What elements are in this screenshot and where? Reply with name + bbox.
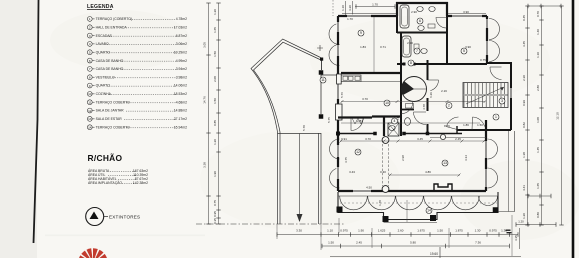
svg-text:3.70: 3.70 (362, 97, 368, 101)
svg-text:0.80: 0.80 (536, 212, 540, 218)
svg-text:1.45: 1.45 (536, 147, 540, 153)
svg-text:2.30: 2.30 (522, 75, 526, 81)
svg-text:12.10: 12.10 (556, 112, 560, 120)
svg-text:7.36: 7.36 (475, 241, 481, 245)
svg-text:2.81: 2.81 (357, 119, 363, 123)
svg-text:SALA DE ESTAR: SALA DE ESTAR (96, 117, 123, 121)
svg-text:1.74: 1.74 (396, 117, 400, 123)
svg-text:TERRAÇO COBERTO: TERRAÇO COBERTO (96, 125, 131, 129)
svg-text:4.41: 4.41 (522, 185, 526, 191)
svg-text:2.80: 2.80 (536, 85, 540, 91)
svg-text:3.43: 3.43 (349, 170, 355, 174)
svg-text:1.675: 1.675 (417, 229, 425, 233)
svg-text:8.76: 8.76 (444, 124, 450, 128)
svg-text:1.10: 1.10 (536, 52, 540, 58)
svg-text:15.94m2: 15.94m2 (174, 125, 187, 129)
svg-text:3.70: 3.70 (365, 137, 371, 141)
svg-text:0.85: 0.85 (213, 120, 217, 126)
svg-text:1.86: 1.86 (463, 123, 469, 127)
svg-text:2.30: 2.30 (407, 41, 413, 45)
svg-text:0.75: 0.75 (480, 58, 486, 62)
svg-text:3.35: 3.35 (514, 235, 518, 241)
svg-text:3.90: 3.90 (463, 10, 469, 14)
svg-text:11: 11 (321, 78, 325, 82)
svg-text:1.70: 1.70 (347, 17, 353, 21)
svg-text:QUARTO: QUARTO (96, 84, 111, 88)
svg-text:4.86: 4.86 (425, 170, 431, 174)
svg-text:14.88m2: 14.88m2 (174, 109, 187, 113)
svg-text:1.70: 1.70 (378, 200, 382, 206)
svg-text:2.60: 2.60 (398, 229, 404, 233)
svg-text:QUARTO: QUARTO (96, 50, 111, 54)
svg-text:0.91: 0.91 (341, 137, 347, 141)
svg-text:6.87m2: 6.87m2 (176, 34, 187, 38)
svg-text:3.45: 3.45 (522, 41, 526, 47)
svg-text:4.78m2: 4.78m2 (176, 17, 187, 21)
svg-text:0.70: 0.70 (536, 11, 540, 17)
svg-text:2.16: 2.16 (441, 89, 447, 93)
svg-text:EXTINTORES: EXTINTORES (109, 214, 140, 219)
svg-text:ESCADAS: ESCADAS (96, 34, 113, 38)
svg-text:14: 14 (88, 125, 92, 129)
svg-text:3.75: 3.75 (344, 157, 348, 163)
svg-text:18.53m2: 18.53m2 (174, 92, 187, 96)
svg-text:0.95: 0.95 (213, 211, 217, 217)
svg-text:1.90: 1.90 (358, 229, 364, 233)
svg-text:COZINHA: COZINHA (96, 92, 112, 96)
svg-text:VESTIBULO: VESTIBULO (96, 75, 115, 79)
svg-text:4.99m2: 4.99m2 (176, 59, 187, 63)
svg-text:13: 13 (443, 161, 447, 165)
svg-text:1.10: 1.10 (327, 229, 333, 233)
svg-text:4.50: 4.50 (366, 186, 372, 190)
svg-text:9: 9 (89, 84, 91, 88)
svg-text:0.99: 0.99 (522, 100, 526, 106)
svg-text:1.50: 1.50 (437, 229, 443, 233)
svg-text:2.45: 2.45 (455, 137, 461, 141)
svg-text:10: 10 (385, 101, 389, 105)
svg-text:2.45: 2.45 (356, 241, 362, 245)
svg-text:3.06m2: 3.06m2 (176, 42, 187, 46)
svg-text:8: 8 (89, 76, 91, 80)
svg-text:6: 6 (419, 19, 421, 23)
svg-text:2.90: 2.90 (411, 10, 417, 14)
svg-text:14.76: 14.76 (203, 96, 207, 104)
svg-text:4.68m2: 4.68m2 (176, 100, 187, 104)
svg-text:12: 12 (356, 150, 360, 154)
svg-text:142.38m2: 142.38m2 (133, 181, 148, 185)
svg-text:1.50: 1.50 (213, 98, 217, 104)
svg-text:7: 7 (416, 49, 418, 53)
svg-text:1.20: 1.20 (213, 9, 217, 15)
svg-text:5: 5 (463, 49, 465, 53)
svg-text:1.20: 1.20 (518, 220, 524, 224)
svg-text:1.20: 1.20 (213, 139, 217, 145)
svg-text:0.975: 0.975 (340, 229, 348, 233)
svg-text:0.975: 0.975 (489, 229, 497, 233)
svg-text:3.30: 3.30 (296, 229, 302, 233)
svg-text:9: 9 (360, 31, 362, 35)
svg-text:1.38: 1.38 (522, 152, 526, 158)
svg-text:5.70: 5.70 (302, 125, 306, 131)
svg-text:19.60: 19.60 (430, 252, 438, 256)
svg-text:1.50: 1.50 (213, 51, 217, 57)
svg-text:6.29: 6.29 (429, 92, 433, 98)
svg-text:2: 2 (448, 104, 450, 108)
svg-text:ÁREA IMPLANTAÇÃO: ÁREA IMPLANTAÇÃO (88, 180, 122, 185)
svg-text:14: 14 (427, 209, 431, 213)
svg-text:7: 7 (89, 67, 91, 71)
svg-text:3: 3 (501, 99, 503, 103)
svg-text:4.78: 4.78 (422, 104, 426, 110)
svg-text:11: 11 (88, 101, 91, 105)
svg-text:1.65: 1.65 (213, 27, 217, 33)
svg-text:TERRAÇO COBERTO: TERRAÇO COBERTO (96, 100, 131, 104)
svg-text:0.82: 0.82 (522, 122, 526, 128)
svg-text:3.34: 3.34 (464, 155, 468, 161)
svg-text:1.65: 1.65 (536, 183, 540, 189)
svg-text:HALL DE ENTRADA: HALL DE ENTRADA (96, 25, 128, 29)
svg-text:3.90: 3.90 (465, 45, 471, 49)
svg-text:5: 5 (89, 51, 91, 55)
svg-text:1.625: 1.625 (378, 229, 386, 233)
svg-text:3.94m2: 3.94m2 (176, 67, 187, 71)
svg-text:1.40: 1.40 (536, 29, 540, 35)
svg-text:1.90: 1.90 (213, 171, 217, 177)
svg-text:2.08: 2.08 (213, 76, 217, 82)
svg-text:1.50: 1.50 (477, 123, 483, 127)
svg-text:13: 13 (88, 117, 92, 121)
svg-text:1.50: 1.50 (328, 241, 334, 245)
svg-text:3.20: 3.20 (348, 5, 352, 11)
svg-text:14.06m2: 14.06m2 (174, 84, 187, 88)
svg-text:0.30: 0.30 (380, 170, 386, 174)
svg-text:27.17m2: 27.17m2 (174, 117, 187, 121)
svg-text:TERRAÇO (COBERTO): TERRAÇO (COBERTO) (96, 17, 132, 21)
svg-text:0.75: 0.75 (213, 200, 217, 206)
svg-text:LAVABO: LAVABO (96, 42, 109, 46)
svg-text:1.20: 1.20 (522, 213, 526, 219)
svg-text:4: 4 (89, 42, 91, 46)
svg-text:3.38: 3.38 (203, 162, 207, 168)
svg-text:0.45: 0.45 (522, 15, 526, 21)
svg-text:CASA DE BANHO: CASA DE BANHO (96, 59, 124, 63)
svg-text:1.10: 1.10 (341, 5, 345, 11)
svg-text:1.30: 1.30 (475, 229, 481, 233)
svg-text:2: 2 (89, 26, 91, 30)
svg-text:3.05: 3.05 (203, 42, 207, 48)
svg-text:6: 6 (89, 59, 91, 63)
svg-text:19.29m2: 19.29m2 (174, 50, 187, 54)
svg-text:1.70: 1.70 (372, 2, 378, 6)
svg-text:10: 10 (88, 92, 92, 96)
svg-text:1.08: 1.08 (536, 117, 540, 123)
svg-text:2.98: 2.98 (401, 155, 405, 161)
svg-text:1.83: 1.83 (360, 45, 366, 49)
svg-text:3: 3 (89, 34, 91, 38)
svg-text:1: 1 (89, 17, 91, 21)
svg-text:3.98m2: 3.98m2 (176, 75, 187, 79)
svg-text:R/CHÃO: R/CHÃO (88, 153, 123, 163)
svg-text:5.75: 5.75 (327, 117, 331, 123)
svg-text:5.80: 5.80 (410, 241, 416, 245)
svg-text:5.76: 5.76 (340, 92, 344, 98)
svg-text:1: 1 (495, 115, 497, 119)
svg-text:SALA DE JANTAR: SALA DE JANTAR (96, 109, 125, 113)
svg-text:3.45: 3.45 (417, 137, 423, 141)
svg-text:0.35: 0.35 (213, 218, 217, 224)
svg-text:0.71: 0.71 (380, 45, 386, 49)
svg-text:8: 8 (410, 61, 412, 65)
svg-text:CASA DE BANHO: CASA DE BANHO (96, 67, 124, 71)
svg-text:1.875: 1.875 (455, 229, 463, 233)
svg-text:17.03m2: 17.03m2 (174, 25, 187, 29)
svg-text:12: 12 (88, 109, 92, 113)
